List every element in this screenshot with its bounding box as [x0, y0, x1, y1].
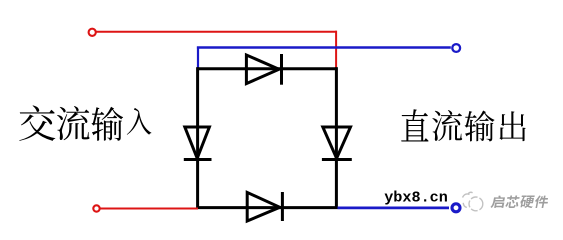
- diode D3 (left side, pointing down): [184, 127, 212, 160]
- terminal T1: AC input top (red): [89, 29, 96, 36]
- wire: bridge bottom side: [197, 206, 338, 209]
- terminal T3: DC output top (blue): [452, 44, 460, 52]
- wire: AC bottom red horizontal: [100, 208, 198, 210]
- label: DC output text 直流输出: [401, 109, 525, 141]
- diode D2 (bottom, anode left): [247, 192, 282, 221]
- wire: blue vertical from bridge top-left node: [197, 47, 199, 69]
- diode D4 (right side, pointing down): [322, 127, 352, 160]
- terminal T4: DC output bottom (blue): [452, 204, 460, 212]
- wire: DC bottom blue horizontal: [338, 206, 450, 209]
- diode D1 (top, anode left): [246, 54, 281, 85]
- wire: bridge right side: [335, 67, 338, 209]
- wire: bridge top side: [197, 67, 338, 70]
- wire: DC top blue horizontal: [197, 46, 451, 48]
- terminal T2: AC input bottom (red): [93, 205, 99, 211]
- label: AC input text 交流输入: [19, 105, 151, 140]
- logo text 启芯硬件: [490, 195, 549, 208]
- logo icon (gray swirl): [463, 192, 483, 211]
- wire: AC top red horizontal: [96, 31, 337, 33]
- svg-text:ybx8.cn: ybx8.cn: [384, 189, 448, 207]
- wire: bridge left side: [196, 67, 199, 209]
- wire: red vertical drop to bridge top-right node: [335, 31, 337, 69]
